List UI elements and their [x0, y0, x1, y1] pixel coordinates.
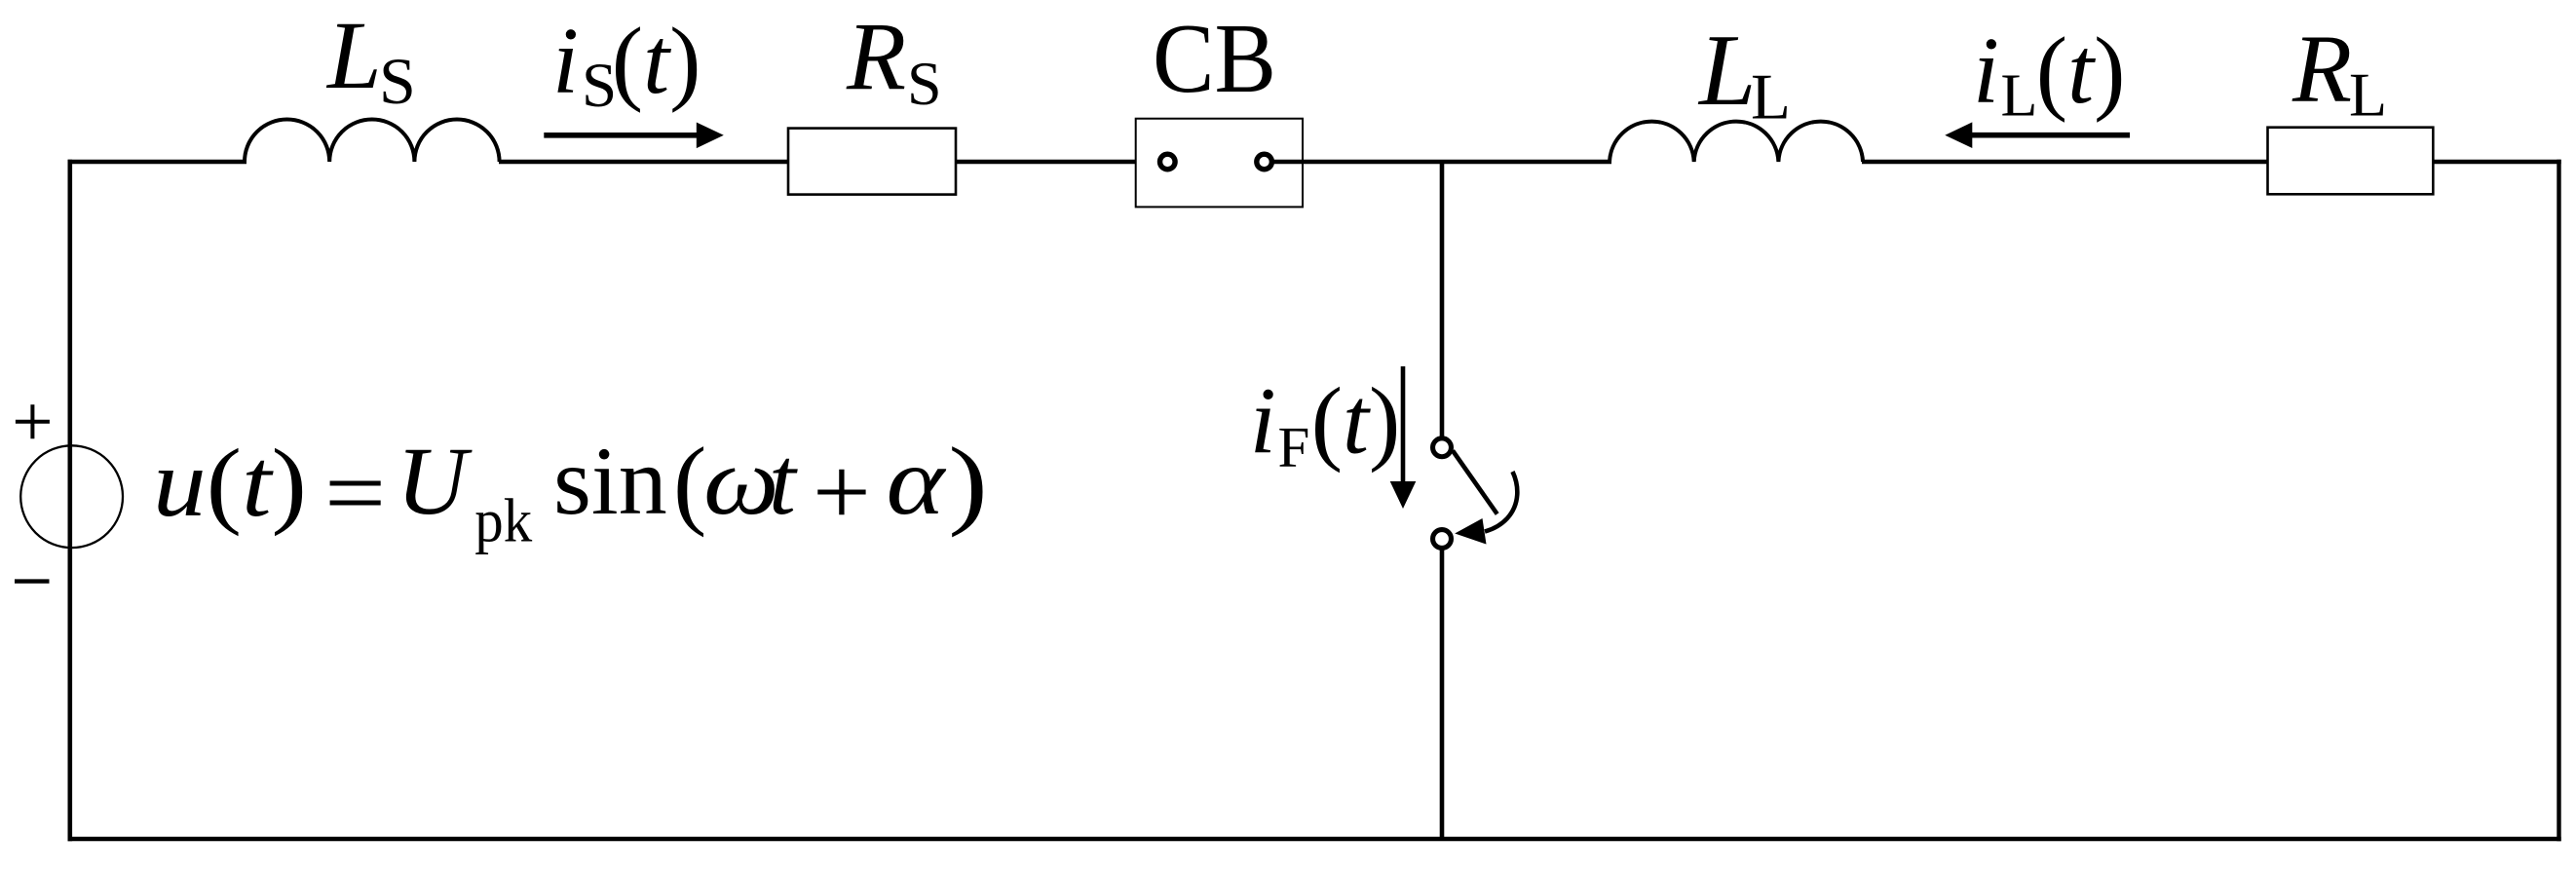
- wire: top-left segment from left corner to Ls: [68, 160, 246, 164]
- resistor Rs body: [788, 129, 956, 195]
- wire: left vertical side through source: [68, 160, 73, 841]
- voltage source u(t) circle: [20, 445, 123, 548]
- CB right contact circle: [1257, 154, 1272, 170]
- svg-text:i: i: [1973, 19, 1999, 123]
- circuit breaker CB box: [1136, 119, 1303, 208]
- svg-text:ω: ω: [703, 427, 779, 535]
- minus polarity mark: [15, 579, 50, 583]
- svg-text:U: U: [397, 427, 473, 535]
- wire: Ls to Rs: [499, 160, 789, 164]
- svg-text:R: R: [2292, 15, 2352, 123]
- resistor RL body: [2268, 128, 2434, 195]
- wire: LL to RL: [1862, 160, 2268, 164]
- current arrow iL: [1972, 133, 2130, 138]
- svg-text:R: R: [846, 2, 906, 110]
- svg-text:+: +: [813, 438, 871, 547]
- svg-text:i: i: [1250, 369, 1276, 474]
- svg-text:=: =: [324, 438, 386, 547]
- svg-text:): ): [948, 427, 988, 538]
- inductor LL coil humps: [1610, 122, 1863, 162]
- svg-text:(t): (t): [1311, 369, 1401, 474]
- switch lower contact circle: [1433, 530, 1452, 549]
- wire: fault branch lower vertical: [1440, 549, 1445, 839]
- svg-text:L: L: [2001, 62, 2038, 129]
- wire: Rs to CB: [956, 160, 1157, 164]
- svg-text:L: L: [325, 1, 382, 109]
- switch arc arrowhead: [1455, 518, 1486, 545]
- current arrow iS: [544, 133, 699, 138]
- svg-text:S: S: [379, 44, 416, 118]
- plus polarity mark: [16, 404, 50, 438]
- wire: bottom return: [68, 837, 2561, 842]
- svg-text:CB: CB: [1153, 4, 1276, 114]
- switch blade: [1453, 451, 1497, 514]
- svg-text:S: S: [907, 49, 942, 118]
- svg-text:(: (: [673, 428, 706, 539]
- wire: RL to top-right corner: [2433, 160, 2560, 164]
- svg-text:L: L: [1697, 13, 1756, 127]
- switch closing arc arrow: [1485, 472, 1517, 532]
- svg-text:pk: pk: [474, 486, 532, 555]
- current arrow iF: [1401, 366, 1406, 483]
- svg-text:L: L: [2349, 60, 2387, 130]
- svg-text:(t): (t): [612, 9, 701, 113]
- svg-text:u(t): u(t): [153, 429, 307, 537]
- svg-text:i: i: [552, 9, 579, 113]
- wire: fault branch upper vertical: [1440, 160, 1445, 437]
- inductor Ls coil humps: [245, 119, 500, 162]
- switch upper contact circle: [1433, 438, 1452, 457]
- svg-text:α: α: [887, 427, 948, 535]
- svg-text:sin: sin: [553, 427, 667, 535]
- svg-text:t: t: [769, 427, 798, 535]
- svg-text:F: F: [1278, 415, 1310, 479]
- wire: CB through fault node to LL: [1274, 160, 1612, 164]
- svg-text:L: L: [1751, 61, 1791, 133]
- svg-text:(t): (t): [2036, 19, 2126, 123]
- CB left contact circle: [1160, 154, 1176, 170]
- wire: right vertical side: [2557, 160, 2560, 841]
